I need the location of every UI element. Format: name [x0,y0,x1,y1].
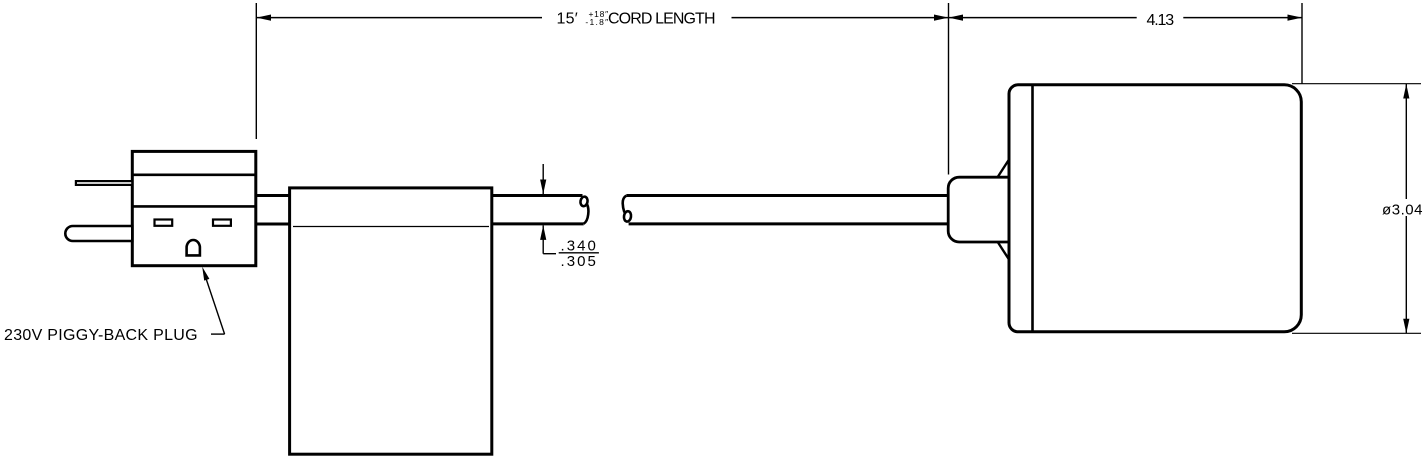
plug left outlet slot [155,220,173,226]
dimension line 15ft cord length left segment [257,17,543,19]
svg-text:CORD LENGTH: CORD LENGTH [608,11,716,28]
dia 3.04 arrowhead down [1403,319,1409,334]
tag rectangle [290,188,492,454]
cord diameter dim lower arrowhead pointing up [540,225,546,240]
plug ground hole arch [187,240,200,255]
plug round ground prong [65,226,132,241]
cord diameter leader L line [543,253,556,255]
cord break tail left piece [584,204,589,224]
svg-text:ø3.04: ø3.04 [1382,201,1423,218]
dia 3.04 top extension line [1292,83,1421,85]
boot upper flare diagonal [998,160,1009,178]
leader arrowhead at plug [202,267,209,281]
svg-text:-1.8″: -1.8″ [585,17,608,27]
extension line at cup right (4.13 dim) [1301,3,1303,84]
extension line at plug (cord length dim) [255,3,257,139]
dimension line 4.13 right segment [1183,17,1302,19]
extension line at cup boot (cord length dim) [948,3,950,175]
svg-text:.305: .305 [561,253,596,270]
svg-text:15′: 15′ [557,11,578,28]
svg-text:230V PIGGY-BACK PLUG: 230V PIGGY-BACK PLUG [4,327,198,344]
cup cap inner vertical line [1031,85,1034,332]
dia 3.04 dimension line lower segment [1405,216,1407,333]
dia 3.04 arrowhead up [1403,84,1409,99]
cup body outline [1009,85,1301,332]
cord diameter dim upper arrowhead pointing down [540,180,546,195]
cord segment plug to tag top line [256,194,290,197]
cord break tail right piece [623,196,627,213]
fraction bar [559,252,599,254]
plug body outer rectangle [132,151,256,265]
cord segment break to boot top line [626,194,947,197]
boot lower flare diagonal [998,242,1009,260]
leader dash after label [211,333,225,335]
cord segment tag to break top line [492,194,583,197]
arrowhead left of 4.13 dim pointing left [949,15,964,21]
dimension line 4.13 left segment [949,17,1137,19]
cord break loop right piece [623,211,631,222]
strain relief boot [948,177,1010,242]
cord segment plug to tag bottom line [256,223,290,226]
dimension line 15ft cord length right segment [732,17,949,19]
dia 3.04 bottom extension line [1292,332,1421,334]
plug divider line upper [132,174,256,177]
plug flat blade prong [76,181,132,185]
svg-text:4.13: 4.13 [1147,12,1175,29]
plug right outlet slot [213,220,231,226]
arrowhead right of cord length dim [934,15,949,21]
tag crease thin line (cord bottom seen through tag) [293,226,489,228]
arrowhead left of cord length dim [257,15,272,21]
leader diagonal line to plug [204,273,225,335]
cord segment break to boot bottom line [629,222,947,225]
cord break loop left piece [580,196,589,207]
dia 3.04 dimension line upper segment [1405,84,1407,199]
cord diameter dim lower line [542,225,544,253]
arrowhead right of 4.13 dim pointing right [1288,15,1303,21]
cord diameter dim upper line [542,164,544,194]
plug divider line lower [132,205,256,208]
cord segment tag to break bottom line [492,222,584,225]
